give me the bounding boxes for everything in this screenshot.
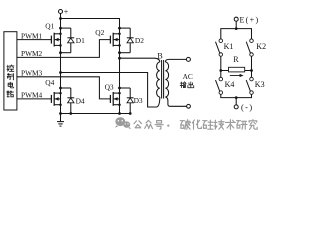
svg-text:R: R xyxy=(233,55,239,64)
diode D2 xyxy=(127,38,134,43)
wire Q2 source to D2 anode xyxy=(120,52,131,54)
wire top switch rail xyxy=(221,29,252,39)
transistor Q4 xyxy=(51,92,61,106)
svg-text:D1: D1 xyxy=(76,36,85,45)
transistor Q1 xyxy=(51,33,61,47)
node: top rail junction xyxy=(59,17,62,20)
diode D4 leads xyxy=(70,88,72,114)
label (-) xyxy=(241,103,254,112)
label K3 xyxy=(255,80,265,89)
node: Q2 drain / D2 tee xyxy=(118,27,121,30)
label Q2 xyxy=(95,28,104,37)
label D1 xyxy=(76,36,85,45)
wire left bus vertical (Q1 drain / node A / Q4 drain / ground) xyxy=(60,19,62,114)
diode D1 leads xyxy=(70,28,72,53)
node: bottom rail center xyxy=(235,96,238,99)
label D2 xyxy=(135,36,144,45)
label R xyxy=(233,55,239,64)
switch K1 xyxy=(216,39,223,56)
resistor R xyxy=(229,67,245,72)
svg-text:B: B xyxy=(157,51,162,60)
diode D2 leads xyxy=(129,28,131,53)
svg-text:AC: AC xyxy=(183,72,193,81)
wire node A rail to transformer primary bottom xyxy=(59,71,160,107)
battery terminal (-) xyxy=(234,105,238,109)
transformer B primary winding xyxy=(157,62,160,97)
wire PWM4 xyxy=(17,98,52,100)
wire R rail down to K3 xyxy=(251,71,253,78)
label K1 xyxy=(224,42,234,51)
control circuit box 控制电路 xyxy=(4,32,17,110)
svg-text:(-): (-) xyxy=(241,103,254,112)
current direction arrow xyxy=(230,74,244,77)
switch K4 xyxy=(216,77,223,94)
transformer B secondary winding xyxy=(165,62,168,97)
switch K2 xyxy=(246,39,253,56)
svg-text:Q2: Q2 xyxy=(95,28,104,37)
svg-text:PWM1: PWM1 xyxy=(21,32,43,41)
wire K2 bottom to R rail xyxy=(250,56,253,72)
label PWM3 xyxy=(21,69,43,78)
AC output terminal (bottom) xyxy=(187,104,191,108)
node: Q1 drain / D1 tee xyxy=(59,27,62,30)
ground xyxy=(57,114,64,127)
node: Q2 source / D2 anode xyxy=(118,51,121,54)
wire Q2-D2 top rail xyxy=(120,27,131,29)
wire bottom switch rail xyxy=(221,94,252,97)
wire K1 bottom to R rail xyxy=(219,56,222,72)
wire ground rail xyxy=(61,113,131,115)
label Q4 xyxy=(45,78,54,87)
svg-text:K2: K2 xyxy=(256,42,266,51)
label PWM4 xyxy=(21,91,43,100)
label Q1 xyxy=(45,21,54,30)
label AC输出 xyxy=(180,72,194,88)
wire R rail xyxy=(221,70,252,72)
wire Q4-D4 top rail xyxy=(61,87,71,89)
svg-text:Q1: Q1 xyxy=(45,21,54,30)
watermark text 公众号·碳化硅技术研究 xyxy=(134,120,257,130)
diode D3 leads xyxy=(129,88,131,114)
node: Q4 drain / D4 tee xyxy=(59,87,62,90)
wire secondary bottom to AC terminal xyxy=(165,97,186,106)
svg-text:D3: D3 xyxy=(134,96,143,105)
svg-text:K1: K1 xyxy=(224,42,234,51)
svg-text:D4: D4 xyxy=(76,97,85,106)
svg-text:D2: D2 xyxy=(135,36,144,45)
node B tee to transformer xyxy=(118,57,121,60)
diode D3 xyxy=(127,98,134,103)
wire supply drop xyxy=(60,14,62,19)
wire node A to D1 anode xyxy=(61,52,71,54)
label D3 xyxy=(134,96,143,105)
svg-text:PWM3: PWM3 xyxy=(21,69,43,78)
positive supply terminal + xyxy=(59,8,69,17)
wire R rail down to K4 xyxy=(220,71,222,78)
svg-text:+: + xyxy=(64,8,69,17)
svg-text:E(+): E(+) xyxy=(240,16,260,25)
transistor Q2 xyxy=(110,33,120,47)
wire PWM1 xyxy=(17,39,52,41)
wire PWM3 (to Q3 gate riser) xyxy=(17,77,111,99)
label B xyxy=(157,51,162,60)
label PWM1 xyxy=(21,32,43,41)
wire PWM2 (to Q2 gate riser) xyxy=(17,40,111,58)
wire Q3-D3 top rail xyxy=(120,87,131,89)
wire top rail xyxy=(61,19,120,29)
switch K3 xyxy=(246,77,253,94)
node A: Q1 source / D1 anode xyxy=(59,51,62,54)
wire Q1-D1 top rail xyxy=(61,27,71,29)
svg-text:PWM2: PWM2 xyxy=(21,49,43,58)
label D4 xyxy=(76,97,85,106)
wire right bus vertical (Q2 / node B / Q3) xyxy=(119,28,121,113)
svg-text:Q3: Q3 xyxy=(105,82,114,91)
label Q3 xyxy=(105,82,114,91)
svg-text:Q4: Q4 xyxy=(45,78,54,87)
battery terminal E(+) xyxy=(234,17,238,21)
AC output terminal (top) xyxy=(186,57,190,61)
diode D1 xyxy=(67,38,74,43)
svg-text:K3: K3 xyxy=(255,80,265,89)
wire to negative terminal xyxy=(235,98,237,105)
wire E+ to switch rail xyxy=(235,21,238,30)
transformer B core xyxy=(162,60,164,99)
node: Q3 drain / D3 tee xyxy=(118,87,121,90)
wire secondary top to AC terminal xyxy=(165,59,186,62)
svg-text:PWM4: PWM4 xyxy=(21,91,43,100)
transistor Q3 xyxy=(110,92,120,106)
label PWM2 xyxy=(21,49,43,58)
label K2 xyxy=(256,42,266,51)
node: ground junctions xyxy=(59,112,132,115)
wire node B rail to transformer primary top xyxy=(120,58,160,62)
watermark wechat logo xyxy=(115,117,131,129)
diode D4 xyxy=(67,98,74,103)
label E(+) xyxy=(240,16,260,25)
label K4 xyxy=(225,80,235,89)
svg-text:K4: K4 xyxy=(225,80,235,89)
